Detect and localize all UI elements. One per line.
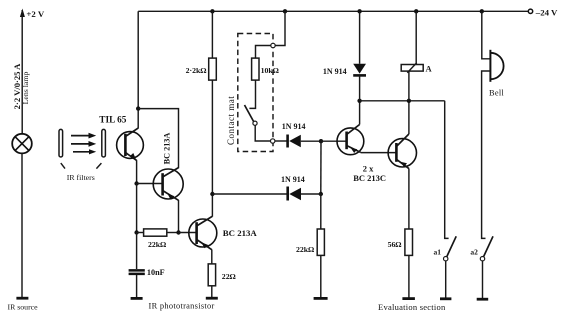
diode D1 1N914 [288, 135, 301, 148]
svg-text:+2 V: +2 V [26, 9, 44, 19]
wire node to BC213A #2 base [179, 232, 197, 234]
wire +2V terminal to lamp [21, 10, 23, 134]
svg-text:BC 213C: BC 213C [353, 173, 386, 183]
resistor R 22kOhm horizontal [137, 229, 179, 236]
resistor R 22kOhm (evaluation) [317, 229, 324, 255]
wire rail drop to contact mat [275, 11, 285, 45]
svg-text:a2: a2 [470, 248, 478, 257]
phototransistor TIL65 [117, 128, 144, 161]
wire emitter-node down to 22k node [136, 184, 138, 233]
svg-text:a1: a1 [434, 248, 442, 257]
terminal bar 56 Ohm [402, 297, 415, 300]
junction rail / contact mat feed [283, 9, 287, 13]
wire bell to switch a2 [482, 71, 490, 238]
wire relay to node [408, 71, 410, 101]
relay coil A [401, 63, 423, 73]
top supply rail -24V [138, 10, 528, 12]
junction rail / 2.2k [210, 9, 214, 13]
resistor R 56 Ohm [405, 229, 413, 255]
node Q1 base junction [319, 139, 323, 143]
svg-text:A: A [426, 64, 433, 74]
svg-text:10nF: 10nF [147, 268, 165, 277]
wire 22 Ohm to terminal [211, 286, 213, 298]
switch a2 blade [484, 236, 493, 256]
svg-text:2·2kΩ: 2·2kΩ [186, 66, 207, 75]
node BC213A#2 base junction [176, 230, 180, 234]
svg-text:Lens lamp: Lens lamp [21, 72, 30, 105]
contact mat dashed enclosure [238, 34, 273, 152]
wire rail to 2.2k resistor [211, 11, 213, 58]
wire Q1 emitter to Q2 base [361, 152, 397, 154]
wire bus corner down to switch a1 [445, 101, 449, 239]
switch a1 pivot [444, 257, 448, 261]
svg-text:1N 914: 1N 914 [281, 175, 305, 184]
wire 2.2k to BC213A#2 collector [211, 80, 213, 217]
wire rail to bell [482, 11, 490, 59]
terminal bar 22 Ohm [206, 297, 218, 300]
transistor Q1 BC213C [337, 125, 364, 155]
svg-text:IR filters: IR filters [67, 173, 95, 182]
wire D2 to node [301, 193, 321, 195]
wire rail to relay [415, 11, 417, 64]
wire node to Q1 base [321, 140, 347, 142]
transistor BC213A #2 [189, 216, 217, 249]
wire rail to diode D3 [359, 11, 361, 64]
junction rail / diode D3 [357, 9, 361, 13]
wire lamp to bottom terminal [21, 153, 23, 298]
wire BC213A#2 emitter to 22 Ohm [211, 250, 213, 264]
node Q1 collector / D3 junction [357, 99, 361, 103]
wire D1 to Q1 base node [301, 140, 321, 142]
IR radiation arrows [71, 133, 96, 155]
terminal bar a1 [440, 297, 451, 300]
terminal bar 10nF [131, 297, 143, 300]
svg-text:56Ω: 56Ω [388, 240, 402, 249]
contact mat switch blade [245, 105, 254, 122]
bell [490, 50, 503, 82]
svg-text:–24 V: –24 V [535, 7, 558, 17]
wire Q2 emitter to 56 Ohm [408, 169, 410, 230]
IR filter element right [102, 129, 106, 157]
node junction rail-drop / BC213A collector branch [136, 106, 140, 110]
wire node to diode D1 [275, 140, 287, 142]
wire 22k to terminal [320, 255, 322, 298]
svg-text:IR source: IR source [8, 303, 39, 312]
svg-text:10kΩ: 10kΩ [261, 66, 279, 75]
lamp (lens lamp, IR source) [12, 134, 32, 154]
node Q2 collector / relay junction [407, 99, 411, 103]
node contact mat upper terminal [271, 43, 275, 47]
wire a2 to terminal [482, 261, 484, 299]
node TIL65 emitter / BC213A base [134, 181, 138, 185]
wire 2.2k node to diode D2 [212, 193, 287, 195]
wire Q1 collector up [359, 101, 361, 125]
svg-text:22kΩ: 22kΩ [296, 245, 314, 254]
svg-text:Evaluation section: Evaluation section [378, 302, 446, 312]
svg-text:22kΩ: 22kΩ [148, 240, 166, 249]
transistor BC213A #1 [153, 168, 183, 201]
transistor Q2 BC213C [388, 134, 416, 169]
node 22k / 10nF junction [134, 230, 138, 234]
wire D3 to node [359, 75, 361, 100]
svg-text:BC 213A: BC 213A [163, 133, 172, 165]
wire TIL65 emitter down to node [136, 160, 138, 183]
diode D3 1N914 vertical [353, 64, 366, 76]
node D2 anode junction [319, 192, 323, 196]
IR filters callout strokes [61, 163, 102, 169]
svg-text:Bell: Bell [489, 89, 505, 98]
node contact mat lower terminal [271, 139, 275, 143]
wire a1 to terminal [445, 261, 447, 299]
wire 10nF to terminal [136, 275, 138, 298]
wire 10k to switch contact [249, 80, 255, 108]
capacitor C 10nF [129, 270, 145, 274]
+2 V supply terminal arrow [20, 9, 25, 18]
junction rail / relay A [414, 9, 418, 13]
contact mat switch pivot [253, 121, 257, 125]
switch a2 pivot [480, 257, 484, 261]
diode D2 1N914 [288, 187, 301, 201]
wire BC213A#1 emitter down [178, 200, 180, 233]
wire node to 10k resistor [256, 46, 271, 59]
node diode D2 takeoff [210, 192, 214, 196]
terminal bar IR source [16, 297, 28, 300]
svg-text:Contact mat: Contact mat [226, 96, 236, 145]
terminal bar 22k evaluation [314, 297, 328, 300]
wire bus Q1/Q2 collectors to a1 [360, 100, 445, 102]
resistor R 22 Ohm [208, 264, 215, 286]
wire rail left drop to TIL65 collector [137, 11, 139, 128]
wire node to 22k evaluation resistor [320, 194, 322, 229]
wire switch to lower node [255, 125, 271, 141]
svg-text:IR phototransistor: IR phototransistor [149, 302, 215, 311]
svg-text:BC 213A: BC 213A [223, 228, 258, 238]
svg-text:1N 914: 1N 914 [282, 122, 306, 131]
wire node down to D2 node [320, 141, 322, 194]
wire Q2 collector up [408, 101, 410, 134]
wire 56 Ohm to terminal [408, 255, 410, 298]
IR filter element left [59, 129, 63, 157]
svg-text:1N 914: 1N 914 [323, 67, 347, 76]
svg-text:TIL 65: TIL 65 [99, 116, 126, 126]
wire node down to 10nF [136, 233, 138, 270]
junction rail / bell [480, 9, 484, 13]
switch a1 blade [447, 236, 456, 256]
wire branch to BC213A #1 collector [138, 109, 178, 169]
svg-text:22Ω: 22Ω [222, 272, 236, 281]
resistor R 10kOhm [252, 58, 259, 80]
resistor R 2.2kOhm [209, 58, 217, 80]
wire node to BC213A #1 base [137, 183, 163, 185]
terminal bar a2 [477, 298, 489, 301]
terminal -24 V [528, 9, 532, 13]
svg-text:2 x: 2 x [363, 163, 374, 173]
